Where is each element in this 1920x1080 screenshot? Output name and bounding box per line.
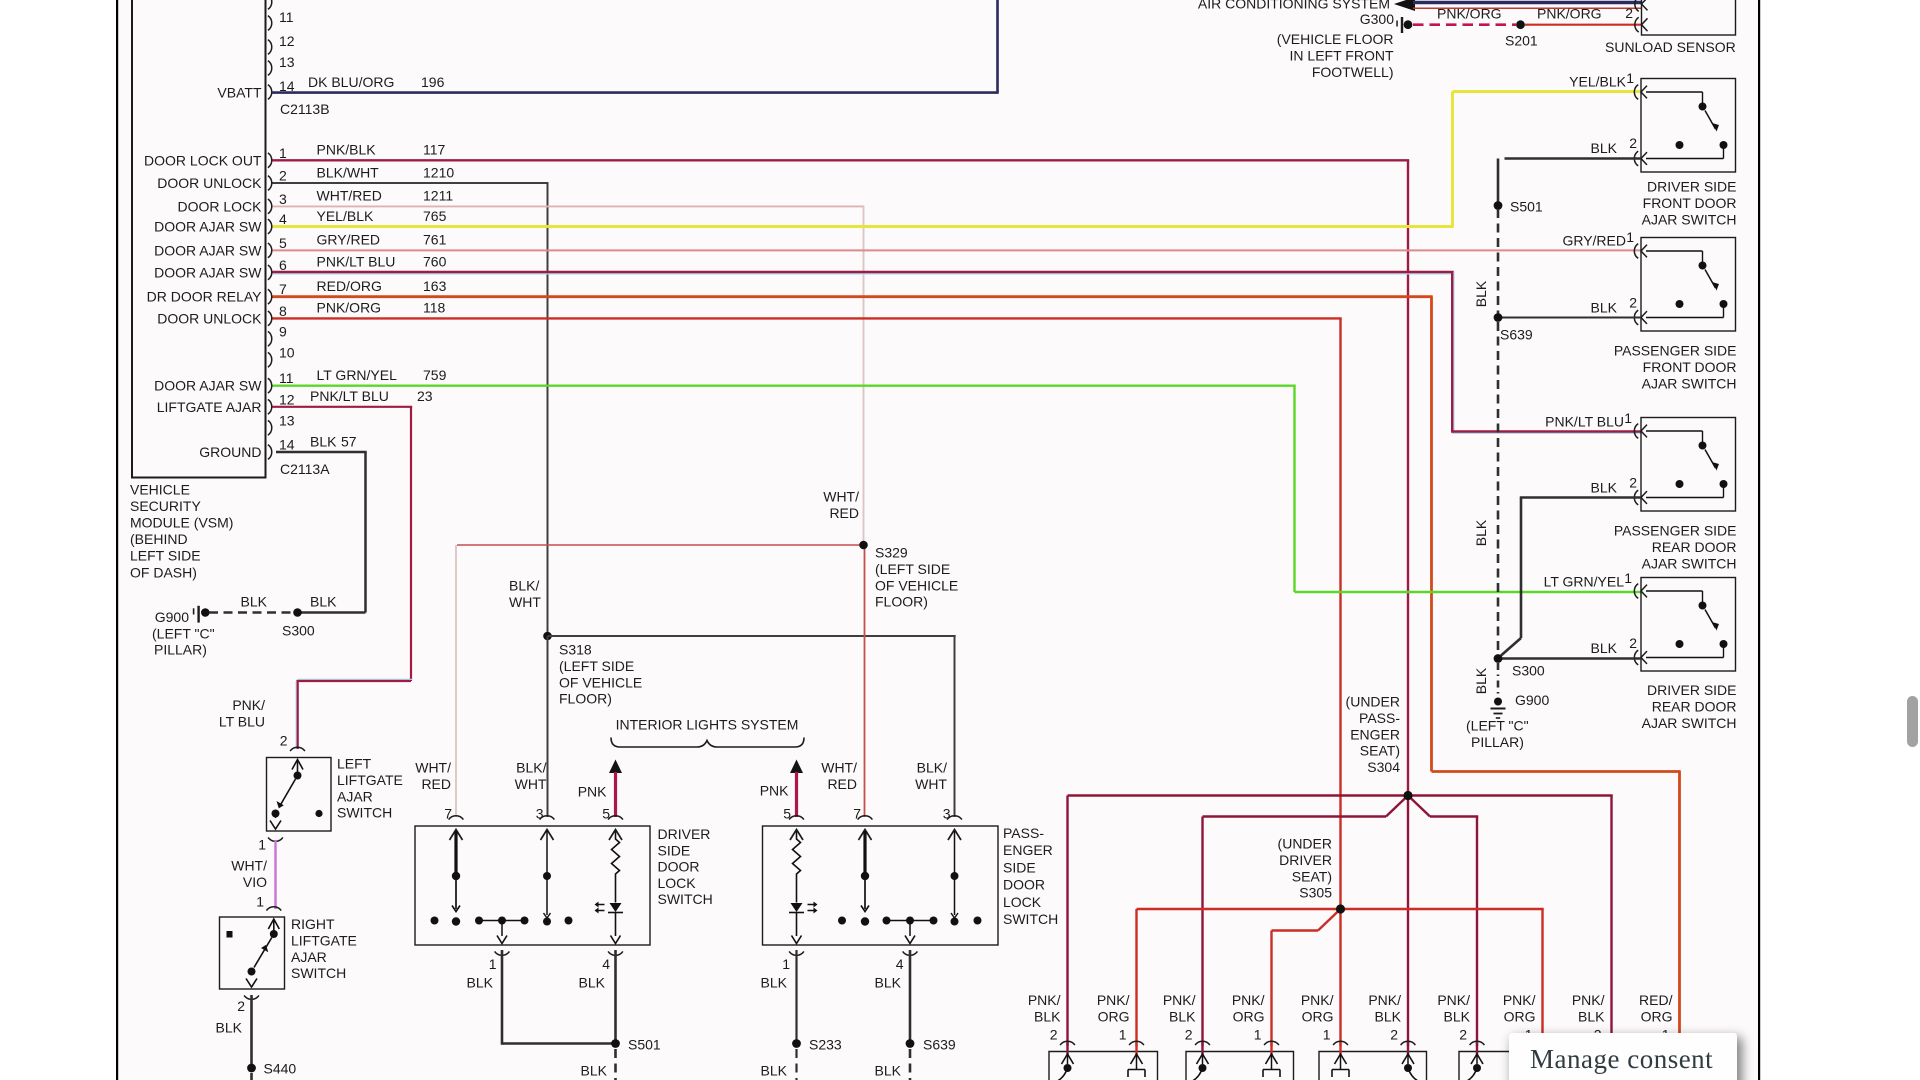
label RED/ORG 163 — [317, 278, 447, 294]
label BLK below S501 — [581, 1063, 608, 1079]
svg-text:BLK: BLK — [1444, 1008, 1471, 1024]
svg-text:RIGHT: RIGHT — [291, 916, 335, 932]
actuator pin 1 at 1136.5 — [1128, 1041, 1145, 1077]
wire BLK/WHT 1210 — [273, 183, 549, 636]
svg-text:AJAR SWITCH: AJAR SWITCH — [1642, 715, 1737, 731]
svg-text:ORG: ORG — [1641, 1008, 1673, 1024]
svg-text:BLK: BLK — [1169, 1008, 1196, 1024]
svg-text:PNK/: PNK/ — [1028, 992, 1061, 1008]
svg-text:BLK: BLK — [1473, 667, 1489, 694]
svg-text:S318: S318 — [559, 642, 592, 658]
svg-text:SECURITY: SECURITY — [130, 498, 201, 514]
svg-text:1: 1 — [1626, 229, 1634, 245]
label WHT/RED passenger pin7 — [821, 760, 857, 792]
passenger rear door ajar switch box — [1641, 418, 1736, 512]
svg-text:WHT: WHT — [915, 776, 947, 792]
svg-text:PNK/: PNK/ — [1097, 992, 1130, 1008]
label PNK/ORG 1 column 1542.5 — [1503, 992, 1536, 1042]
svg-text:SUNLOAD SENSOR: SUNLOAD SENSOR — [1605, 39, 1736, 55]
svg-text:1: 1 — [1624, 570, 1632, 586]
svg-text:LT GRN/YEL: LT GRN/YEL — [1544, 574, 1625, 590]
svg-text:3: 3 — [943, 806, 951, 822]
svg-text:1210: 1210 — [423, 164, 454, 180]
driver door lock switch lock contact arm — [452, 831, 460, 926]
actuator pin 2 at 1408 — [1401, 1041, 1418, 1080]
svg-text:BLK: BLK — [467, 975, 494, 991]
svg-text:AJAR: AJAR — [291, 949, 327, 965]
svg-text:760: 760 — [423, 254, 447, 270]
label AIR CONDITIONING SYSTEM — [1198, 0, 1390, 12]
svg-text:DOOR AJAR SW: DOOR AJAR SW — [154, 378, 262, 394]
svg-text:7: 7 — [444, 806, 452, 822]
svg-text:LEFT SIDE: LEFT SIDE — [130, 548, 201, 564]
svg-text:2: 2 — [1625, 5, 1633, 21]
label G900 left — [155, 609, 189, 625]
svg-text:23: 23 — [417, 388, 433, 404]
connector C2113B pin 10 — [268, 0, 272, 9]
connector C2113A pin 9 — [268, 323, 287, 346]
svg-text:S501: S501 — [628, 1037, 661, 1053]
svg-text:3: 3 — [536, 806, 544, 822]
door lock actuator box 1 — [1049, 1052, 1158, 1080]
svg-text:BLK: BLK — [1375, 1008, 1402, 1024]
svg-text:1: 1 — [489, 956, 497, 972]
svg-text:(LEFT SIDE: (LEFT SIDE — [559, 658, 634, 674]
door lock actuator box 2 — [1186, 1052, 1294, 1080]
caption driver rear door ajar switch — [1642, 682, 1737, 731]
svg-text:BLK: BLK — [761, 1063, 788, 1079]
svg-text:BLK: BLK — [310, 433, 337, 449]
connector C2113B pin 12 — [268, 33, 295, 54]
label PNK/BLK 2 column 1067.5 — [1028, 992, 1061, 1042]
label BLK left of S300 — [241, 594, 268, 610]
label SUNLOAD SENSOR — [1605, 39, 1736, 55]
svg-text:PASSENGER SIDE: PASSENGER SIDE — [1614, 343, 1737, 359]
svg-text:(UNDER: (UNDER — [1278, 836, 1332, 852]
splice S318 — [543, 632, 552, 641]
label S300 — [1512, 663, 1545, 679]
label PNK/BLK 2 column 1611.5 — [1572, 992, 1605, 1042]
label BLK 2 passenger front — [1591, 295, 1638, 316]
svg-text:BLK: BLK — [1034, 1008, 1061, 1024]
scrollbar thumb — [1907, 696, 1918, 747]
wire BLK/WHT S318 branch — [548, 636, 956, 817]
svg-text:1: 1 — [258, 836, 266, 852]
svg-text:SIDE: SIDE — [1003, 859, 1036, 875]
label S501 — [1510, 199, 1543, 215]
passenger front door ajar switch box — [1641, 238, 1736, 332]
wire BLK driver pin1 — [502, 950, 616, 1045]
left liftgate free contact — [315, 810, 322, 817]
svg-text:BLK/: BLK/ — [917, 760, 947, 776]
splice S639 bottom — [906, 1039, 915, 1048]
svg-text:LT GRN/YEL: LT GRN/YEL — [317, 367, 398, 383]
driver lock switch contact row — [431, 917, 573, 944]
actuator pin 1 at 1542.5 — [1534, 1041, 1551, 1077]
driver door lock switch pin 7 — [449, 816, 464, 840]
label BLK 2 driver rear — [1591, 635, 1638, 656]
splice S440 — [247, 1064, 256, 1073]
arrow to air conditioning system — [1394, 0, 1415, 11]
passenger door lock switch pin 7 — [858, 816, 873, 840]
svg-text:PNK/: PNK/ — [232, 697, 265, 713]
svg-text:PILLAR): PILLAR) — [1471, 734, 1524, 750]
label PNK/BLK 117 — [317, 142, 446, 158]
svg-text:PNK/: PNK/ — [1163, 992, 1196, 1008]
svg-text:DOOR AJAR SW: DOOR AJAR SW — [154, 219, 262, 235]
svg-text:LIFTGATE AJAR: LIFTGATE AJAR — [157, 399, 262, 415]
svg-text:1: 1 — [279, 145, 287, 161]
svg-text:WHT: WHT — [515, 776, 547, 792]
svg-text:DOOR AJAR SW: DOOR AJAR SW — [154, 264, 262, 280]
wire PNK/BLK 117 — [273, 160, 1410, 795]
svg-text:WHT/: WHT/ — [823, 489, 859, 505]
svg-text:13: 13 — [279, 412, 295, 428]
connector C2113A pin 3 — [177, 191, 287, 215]
actuator pin 1 at 1340.5 — [1332, 1041, 1349, 1077]
label S300 left — [282, 623, 315, 639]
svg-text:BLK: BLK — [1591, 640, 1618, 656]
label DK BLU/ORG — [308, 74, 394, 90]
label passenger pins bottom — [782, 956, 904, 972]
label C2113B — [280, 101, 330, 117]
svg-text:FLOOR): FLOOR) — [875, 594, 928, 610]
svg-text:PNK/ORG: PNK/ORG — [1437, 5, 1502, 21]
label S501 bottom — [628, 1037, 661, 1053]
left liftgate pin 1 — [268, 837, 283, 841]
right liftgate pin 1 — [266, 907, 281, 911]
svg-text:WHT/: WHT/ — [415, 760, 451, 776]
wire DK BLU/ORG 196 — [273, 0, 999, 93]
svg-text:PNK/LT BLU: PNK/LT BLU — [317, 254, 396, 270]
label BLK/WHT driver pin3 — [515, 760, 547, 792]
driver front door ajar switch switch contacts — [1646, 92, 1728, 159]
label 2 right liftgate bottom — [237, 998, 245, 1014]
svg-text:12: 12 — [279, 33, 295, 49]
svg-text:BLK: BLK — [310, 594, 337, 610]
wire BLK passenger pin1 — [795, 950, 797, 1044]
svg-text:BLK: BLK — [581, 1063, 608, 1079]
driver lock pin 4 — [608, 951, 623, 955]
svg-text:BLK: BLK — [1578, 1008, 1605, 1024]
label (LEFT C PILLAR) right — [1466, 718, 1529, 751]
svg-text:C2113A: C2113A — [280, 461, 330, 477]
svg-text:AJAR SWITCH: AJAR SWITCH — [1642, 555, 1737, 571]
passenger rear door ajar switch switch contacts — [1646, 431, 1728, 498]
caption passenger rear door ajar switch — [1614, 523, 1737, 572]
driver door lock switch box — [415, 826, 650, 945]
arrow PNK driver — [609, 760, 622, 818]
driver door lock switch pin 5 — [608, 816, 623, 840]
label BLK driver bottom — [467, 975, 606, 991]
wire BLK passenger front pin2 — [1502, 317, 1641, 319]
svg-text:BLK: BLK — [216, 1020, 243, 1036]
wire GRY/RED 761 — [273, 249, 1642, 251]
svg-text:ORG: ORG — [1233, 1008, 1265, 1024]
label PNK/ORG left — [1437, 5, 1502, 21]
svg-text:PASS-: PASS- — [1003, 825, 1044, 841]
svg-text:DOOR UNLOCK: DOOR UNLOCK — [157, 175, 262, 191]
svg-text:12: 12 — [279, 391, 295, 407]
svg-text:INTERIOR LIGHTS SYSTEM: INTERIOR LIGHTS SYSTEM — [616, 717, 799, 733]
label G900 right — [1515, 692, 1549, 708]
svg-text:S201: S201 — [1505, 33, 1538, 49]
svg-text:765: 765 — [423, 208, 447, 224]
svg-text:RED: RED — [421, 776, 451, 792]
caption passenger front door ajar switch — [1614, 343, 1737, 392]
splice S305 — [1336, 904, 1345, 913]
connector C2113A pin 11 — [154, 370, 294, 394]
svg-text:6: 6 — [279, 257, 287, 273]
svg-text:G900: G900 — [155, 609, 189, 625]
svg-text:DOOR LOCK OUT: DOOR LOCK OUT — [144, 152, 262, 168]
svg-text:BLK: BLK — [875, 1063, 902, 1079]
svg-text:PNK/ORG: PNK/ORG — [317, 300, 382, 316]
svg-text:G300: G300 — [1360, 11, 1394, 27]
svg-text:SEAT): SEAT) — [1360, 743, 1400, 759]
passenger front door ajar switch switch contacts — [1646, 251, 1728, 318]
svg-text:4: 4 — [279, 211, 287, 227]
sunload pin 1 — [1635, 0, 1648, 11]
svg-text:PNK/BLK: PNK/BLK — [317, 142, 377, 158]
passenger rear door ajar switch pin 1 — [1634, 424, 1647, 439]
wire BLK dashed below S501 — [614, 1049, 617, 1080]
svg-text:SIDE: SIDE — [658, 842, 691, 858]
label PNK/ORG 1 column 1136.5 — [1097, 992, 1130, 1042]
svg-text:BLK/WHT: BLK/WHT — [317, 164, 380, 180]
svg-text:1: 1 — [256, 894, 264, 910]
passenger door lock switch lock contact arm — [861, 831, 869, 926]
brace interior lights — [611, 738, 804, 748]
passenger front door ajar switch pin 2 — [1634, 310, 1647, 325]
svg-text:LOCK: LOCK — [1003, 894, 1042, 910]
passenger front door ajar switch pin 1 — [1634, 244, 1647, 259]
connector C2113A pin 13 — [268, 412, 295, 435]
label G300 — [1360, 11, 1394, 27]
driver door lock switch pin 3 — [540, 816, 555, 840]
svg-text:S501: S501 — [1510, 199, 1543, 215]
svg-text:DOOR: DOOR — [1003, 877, 1045, 893]
svg-text:LEFT: LEFT — [337, 756, 372, 772]
svg-text:2: 2 — [1050, 1026, 1058, 1042]
connector C2113A pin 7 — [147, 281, 287, 305]
passenger rear door ajar switch pin 2 — [1634, 490, 1647, 505]
svg-text:YEL/BLK: YEL/BLK — [317, 208, 374, 224]
wire PNK/ORG S201 to sunload — [1525, 24, 1641, 26]
label (UNDER PASSENGER SEAT) S304 — [1346, 694, 1401, 776]
label BLK 2 driver front — [1591, 135, 1638, 156]
svg-text:118: 118 — [423, 300, 446, 316]
splice S329 — [859, 541, 868, 550]
svg-text:5: 5 — [783, 806, 791, 822]
svg-text:RED: RED — [827, 776, 857, 792]
label C2113A — [280, 461, 330, 477]
label 196 — [421, 74, 445, 90]
svg-text:PNK/: PNK/ — [1368, 992, 1401, 1008]
label S639 bottom — [923, 1037, 956, 1053]
splice S233 — [792, 1039, 801, 1048]
svg-text:PILLAR): PILLAR) — [154, 642, 207, 658]
label S233 — [809, 1037, 842, 1053]
svg-text:WHT/: WHT/ — [231, 858, 267, 874]
svg-text:(VEHICLE FLOOR: (VEHICLE FLOOR — [1277, 31, 1394, 47]
driver front door ajar switch box — [1641, 79, 1736, 173]
passenger lock pin 4 — [903, 951, 918, 955]
door lock actuator box 4 — [1459, 1052, 1567, 1080]
svg-text:SWITCH: SWITCH — [658, 891, 713, 907]
svg-text:G900: G900 — [1515, 692, 1549, 708]
svg-text:4: 4 — [896, 956, 904, 972]
svg-text:S300: S300 — [1512, 663, 1545, 679]
label PNK/ORG right — [1537, 5, 1602, 21]
svg-text:PNK/: PNK/ — [1572, 992, 1605, 1008]
svg-text:2: 2 — [1390, 1026, 1398, 1042]
label driver pins top — [444, 806, 610, 822]
svg-text:(UNDER: (UNDER — [1346, 694, 1400, 710]
svg-text:PNK/: PNK/ — [1437, 992, 1470, 1008]
VSM connector box (C2113B/C2113A) — [132, 0, 266, 478]
svg-text:GROUND: GROUND — [199, 444, 261, 460]
door lock actuator box 5 — [1592, 1052, 1700, 1080]
label BLK rotated 1 — [1473, 280, 1489, 307]
label BLK right of S300 — [310, 594, 337, 610]
caption driver door lock switch — [658, 826, 713, 907]
driver rear door ajar switch pin 2 — [1634, 650, 1647, 665]
svg-text:PNK/ORG: PNK/ORG — [1537, 5, 1602, 21]
page right border — [1758, 0, 1760, 1080]
svg-text:S329: S329 — [875, 545, 908, 561]
label (LEFT C PILLAR) left — [152, 626, 215, 658]
svg-text:2: 2 — [1629, 475, 1637, 491]
wire BLK 57 — [276, 452, 367, 613]
caption passenger door lock switch — [1003, 825, 1058, 927]
svg-text:PNK: PNK — [760, 783, 789, 799]
svg-text:PNK/LT BLU: PNK/LT BLU — [1545, 414, 1624, 430]
svg-text:BLK: BLK — [1473, 519, 1489, 546]
connector C2113A pin 5 — [154, 235, 287, 259]
svg-text:OF VEHICLE: OF VEHICLE — [875, 577, 958, 593]
driver door lock switch illumination resistor and LED — [595, 831, 624, 944]
svg-text:PNK/: PNK/ — [1503, 992, 1536, 1008]
wire PNK/BLK S304 left branch — [1068, 796, 1409, 1047]
wire PNK/ORG S305 left branch — [1137, 909, 1341, 1046]
passenger door lock switch box — [763, 826, 999, 945]
wire BLK dashed G900-S300 — [209, 611, 291, 614]
label BLK right liftgate — [216, 1020, 243, 1036]
svg-text:BLK: BLK — [241, 594, 268, 610]
svg-text:FLOOR): FLOOR) — [559, 691, 612, 707]
wire BLK driver rear pin2 — [1502, 657, 1641, 660]
label (UNDER DRIVER SEAT) S305 — [1278, 836, 1333, 901]
label passenger pins top — [783, 806, 951, 822]
svg-text:2: 2 — [1459, 1026, 1467, 1042]
label 1 left liftgate bottom — [258, 836, 266, 852]
svg-text:RED: RED — [829, 505, 859, 521]
label driver pins bottom — [489, 956, 611, 972]
label 1 right liftgate top — [256, 894, 264, 910]
svg-text:PASS-: PASS- — [1359, 710, 1400, 726]
svg-text:BLK: BLK — [1473, 280, 1489, 307]
wire BLK passenger pin4 — [909, 950, 912, 1044]
wire PNK/ORG S305 right branch — [1341, 909, 1544, 1046]
svg-text:ORG: ORG — [1098, 1008, 1130, 1024]
svg-text:10: 10 — [279, 344, 295, 360]
door lock actuator box 3 — [1319, 1052, 1427, 1080]
connector C2113A pin 4 — [154, 211, 287, 235]
right liftgate free contact — [227, 931, 233, 938]
passenger lock switch contact row — [838, 917, 982, 944]
wire BLK dashed below S440 — [250, 1073, 253, 1080]
splice S300 left — [293, 608, 302, 617]
connector C2113A pin 14 — [199, 437, 295, 461]
svg-text:OF DASH): OF DASH) — [130, 564, 197, 580]
svg-text:163: 163 — [423, 278, 447, 294]
wire BLK dashed splice chain — [1497, 209, 1500, 697]
wire WHT/RED 1211 — [273, 206, 865, 545]
wire BLK driver front pin2 — [1498, 159, 1641, 203]
sunload sensor box — [1642, 0, 1736, 35]
wire RED/ORG 163 — [273, 297, 1681, 1037]
label BLK/WHT 1210 — [317, 164, 455, 180]
svg-text:S233: S233 — [809, 1037, 842, 1053]
driver rear door ajar switch box — [1641, 578, 1736, 672]
label PNK/BLK 2 column 1202.5 — [1163, 992, 1196, 1042]
label PNK/LT BLU 760 — [317, 254, 447, 270]
svg-text:2: 2 — [280, 733, 288, 749]
svg-text:(BEHIND: (BEHIND — [130, 531, 188, 547]
svg-text:DOOR AJAR SW: DOOR AJAR SW — [154, 242, 262, 258]
label 2 left liftgate top — [280, 733, 288, 749]
actuator pin 2 at 1202.5 — [1193, 1041, 1210, 1080]
svg-text:1: 1 — [1323, 1026, 1331, 1042]
svg-text:DOOR LOCK: DOOR LOCK — [177, 198, 262, 214]
passenger door lock switch pin 3 — [947, 816, 962, 840]
svg-text:S639: S639 — [1500, 327, 1533, 343]
svg-text:IN LEFT FRONT: IN LEFT FRONT — [1290, 47, 1394, 63]
svg-text:DRIVER: DRIVER — [658, 826, 711, 842]
label BLK rotated 2 — [1473, 519, 1489, 546]
wire PNK/BLK S304 left diagonal — [1203, 796, 1409, 1047]
label LT GRN/YEL 759 — [317, 367, 447, 383]
svg-text:2: 2 — [1185, 1026, 1193, 1042]
wire PNK/BLK S304 right branch — [1408, 796, 1613, 1047]
svg-text:761: 761 — [423, 232, 447, 248]
svg-text:SEAT): SEAT) — [1292, 868, 1332, 884]
svg-text:1211: 1211 — [423, 188, 453, 204]
label S440 — [264, 1061, 297, 1077]
label 2 sunload — [1625, 5, 1633, 21]
label PNK/LT BLU 23 — [310, 388, 433, 404]
svg-text:FRONT DOOR: FRONT DOOR — [1643, 195, 1737, 211]
label BLK below S639 bottom — [875, 1063, 902, 1079]
svg-text:VEHICLE: VEHICLE — [130, 482, 190, 498]
wire DK BLU to sunload — [1413, 3, 1641, 9]
svg-text:1: 1 — [1254, 1026, 1262, 1042]
svg-text:3: 3 — [279, 191, 287, 207]
right liftgate pin 2 — [244, 995, 259, 999]
label PNK/BLK 2 column 1477 — [1437, 992, 1470, 1042]
svg-text:SWITCH: SWITCH — [337, 805, 392, 821]
svg-text:196: 196 — [421, 74, 445, 90]
svg-text:DRIVER SIDE: DRIVER SIDE — [1647, 179, 1736, 195]
connector C2113B pin 11 — [268, 9, 294, 30]
svg-text:7: 7 — [853, 806, 861, 822]
svg-text:BLK: BLK — [875, 975, 902, 991]
svg-text:BLK/: BLK/ — [509, 578, 539, 594]
right liftgate ajar switch box — [220, 917, 285, 989]
svg-text:LIFTGATE: LIFTGATE — [337, 772, 403, 788]
wire PNK/ORG dashed G300-S201 — [1413, 23, 1516, 26]
